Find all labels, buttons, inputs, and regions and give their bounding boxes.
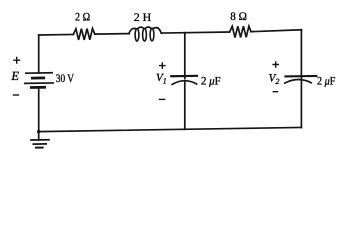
svg-text:8 Ω: 8 Ω xyxy=(230,11,247,23)
resistor R2 8 ohm xyxy=(230,26,251,38)
svg-text:V1: V1 xyxy=(156,72,167,86)
minus sign for V1 xyxy=(160,98,165,100)
inductor L1 2 H coil xyxy=(129,28,136,33)
minus sign for V2 xyxy=(273,91,277,93)
wire left vertical upper (corner to battery) xyxy=(38,35,40,73)
svg-text:2 μF: 2 μF xyxy=(317,76,336,88)
svg-text:E: E xyxy=(10,69,19,83)
capacitor C2 2 uF plates xyxy=(286,75,317,78)
wire right vertical upper (corner to C2) xyxy=(300,30,302,80)
plus sign for V1 xyxy=(160,63,165,68)
capacitor C1 2 uF plates xyxy=(171,75,197,78)
wire between L1 and R2 xyxy=(161,32,229,33)
wire R2 to top-right corner xyxy=(251,30,301,32)
minus sign for source E xyxy=(14,94,19,96)
svg-text:30 V: 30 V xyxy=(56,73,75,85)
plus sign for V2 xyxy=(273,62,278,67)
svg-text:2 Ω: 2 Ω xyxy=(75,12,90,24)
wire top-left horizontal run xyxy=(39,33,74,36)
svg-text:2 H: 2 H xyxy=(134,12,151,24)
wire middle vertical lower (C1 to bottom) xyxy=(184,81,186,129)
wire middle vertical upper (node to C1) xyxy=(184,33,186,79)
bottom wire xyxy=(39,127,302,131)
wire between R1 and L1 xyxy=(95,33,129,36)
wire right vertical lower (C2 to bottom) xyxy=(300,80,302,127)
plus sign for source E xyxy=(14,57,20,63)
battery E 30 V plates xyxy=(26,72,52,74)
svg-text:V2: V2 xyxy=(269,73,280,87)
svg-text:2 μF: 2 μF xyxy=(201,76,221,88)
resistor R1 2 ohm xyxy=(73,29,95,41)
node junction dot at ground tap xyxy=(37,130,40,133)
wire left vertical lower (battery to bottom) xyxy=(38,87,40,131)
ground symbol xyxy=(38,132,40,140)
